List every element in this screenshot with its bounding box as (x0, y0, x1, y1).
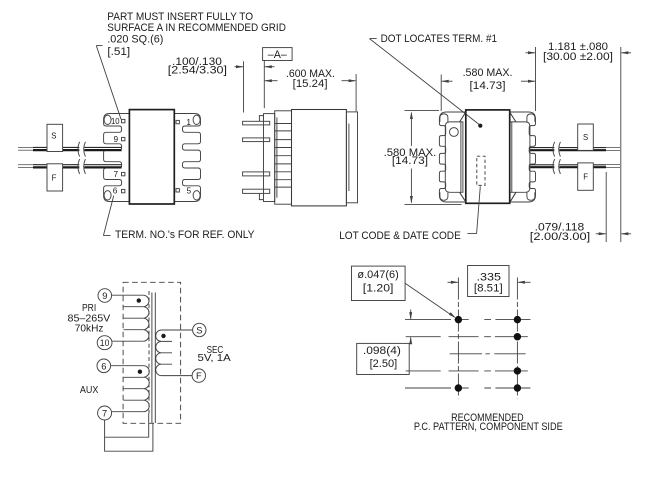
note: TERM. NO.'s FOR REF. ONLY with leader to pin 6 (103, 196, 113, 236)
svg-text:.580 MAX.: .580 MAX. (463, 67, 513, 79)
wire secondary S (twisted pair exits left) (18, 147, 122, 150)
svg-text:6: 6 (101, 361, 106, 371)
svg-text:[2.50]: [2.50] (370, 358, 398, 370)
dimension .580 MAX vertical (384, 110, 462, 204)
chamfer lines (460, 112, 516, 203)
F terminal block (578, 163, 594, 190)
dimension .600 MAX body width (264, 68, 356, 111)
dimension pad dia .047 (352, 266, 456, 318)
wire secondary F (18, 165, 122, 168)
terminal 7 (98, 406, 112, 420)
svg-text:[2.54/3.30]: [2.54/3.30] (168, 64, 227, 76)
core body (side) (292, 110, 347, 206)
bobbin outline right (scalloped pins 1,2,3,4,5) (174, 114, 200, 202)
svg-text:P.C. PATTERN, COMPONENT SIDE: P.C. PATTERN, COMPONENT SIDE (414, 421, 563, 433)
svg-text:.335: .335 (477, 271, 502, 283)
svg-text:F: F (52, 173, 57, 182)
svg-text:S: S (51, 132, 56, 141)
terminal 10 (97, 336, 112, 350)
dimension .580 MAX horizontal (441, 47, 535, 111)
bobbin outline left (scalloped pins 10,9,8,7,6) (104, 114, 130, 202)
wire secondary F (530, 165, 620, 168)
svg-text:70kHz: 70kHz (75, 323, 104, 334)
pins (side view, 4 visible) (243, 121, 270, 193)
note: DOT LOCATES TERM. #1 with leader (370, 33, 498, 124)
note: PART MUST INSERT FULLY TO SURFACE A (107, 11, 286, 58)
svg-text:.020 SQ.(6): .020 SQ.(6) (107, 33, 163, 45)
svg-text:9: 9 (102, 291, 107, 301)
svg-text:10: 10 (100, 338, 110, 348)
svg-text:[2.00/3.00]: [2.00/3.00] (530, 231, 590, 243)
svg-text:[14.73]: [14.73] (470, 80, 506, 92)
S terminal block (578, 124, 594, 150)
bobbin flange (264, 114, 275, 202)
dimension 1.181 +-.080 wire length (526, 41, 632, 242)
svg-text:.098(4): .098(4) (363, 345, 401, 357)
dimension .098 row pitch (357, 310, 413, 375)
S terminal block (47, 124, 63, 151)
svg-text:LOT CODE & DATE CODE: LOT CODE & DATE CODE (339, 230, 461, 242)
svg-text:1: 1 (186, 117, 191, 127)
svg-text:5V, 1A: 5V, 1A (198, 353, 231, 364)
transformer boundary (dashed) (123, 282, 181, 423)
wire break marks (553, 142, 561, 174)
svg-text:ø.047(6): ø.047(6) (357, 269, 398, 281)
svg-text:7: 7 (102, 409, 107, 419)
phase dot AUX (138, 370, 142, 374)
F terminal block (47, 164, 63, 191)
wire secondary S (exits right) (530, 148, 620, 151)
phase dot SEC (161, 334, 165, 338)
terminal 6 (97, 359, 111, 373)
wire break marks (78, 142, 86, 174)
bobbin flange left (bottom view) (445, 122, 463, 192)
svg-text:[1.20]: [1.20] (363, 282, 394, 294)
wire: shield to pin7 node (105, 414, 153, 452)
pin 1 hole (193, 115, 200, 124)
core lines (152, 293, 155, 424)
phase dot PRI (137, 298, 141, 302)
terminal S (193, 323, 206, 336)
dimension .335 column spacing (448, 266, 531, 297)
winding AUX (pins 6-7) (111, 366, 150, 412)
terminal F (192, 369, 205, 382)
svg-text:DOT LOCATES TERM. #1: DOT LOCATES TERM. #1 (381, 33, 497, 45)
svg-text:TERM. NO.'s FOR REF. ONLY: TERM. NO.'s FOR REF. ONLY (115, 229, 255, 241)
bobbin flange right (bottom view) (510, 122, 530, 192)
outline left (scalloped) (439, 112, 465, 202)
svg-text:F: F (583, 172, 588, 181)
svg-text:AUX: AUX (80, 385, 99, 396)
terminal 9 (98, 289, 112, 303)
dimension .079/.118 wire strip length (530, 172, 631, 243)
svg-text:SURFACE A IN RECOMMENDED GRID: SURFACE A IN RECOMMENDED GRID (107, 22, 286, 34)
pin pads (squares) and numbers (111, 116, 191, 196)
dot terminal 1 (478, 124, 482, 128)
core (central rectangle, top view) (129, 110, 174, 204)
svg-text:S: S (583, 133, 588, 142)
dimension .100/.130 pin standoff (168, 56, 275, 113)
winding PRI (pins 9-10) (112, 295, 149, 341)
svg-text:[30.00 ±2.00]: [30.00 ±2.00] (543, 51, 613, 63)
svg-text:7: 7 (113, 169, 118, 179)
outline right (scalloped) (510, 112, 536, 202)
svg-text:5: 5 (186, 185, 191, 195)
flange mounting steps (259, 116, 263, 200)
winding SEC (S-F) (156, 330, 193, 376)
svg-text:6: 6 (113, 186, 118, 196)
svg-text:[8.51]: [8.51] (474, 283, 503, 295)
datum A flag (263, 48, 293, 61)
pin 5 hole (193, 191, 200, 200)
column centerlines (457, 278, 459, 399)
pin 10 hole (104, 115, 111, 124)
shield (dashed line) (148, 291, 150, 414)
pin 6 hole (104, 191, 111, 200)
lot/date code area (dashed) (477, 156, 485, 185)
winding stack strip (275, 111, 292, 204)
svg-text:9: 9 (113, 134, 118, 144)
svg-text:–A–: –A– (268, 49, 287, 61)
svg-text:10: 10 (111, 116, 120, 126)
svg-text:F: F (196, 371, 202, 381)
pin 1 hole (450, 128, 459, 137)
end cap / tape (346, 112, 357, 203)
corner pin tabs (440, 114, 535, 200)
leader to pin 10 pad (96, 46, 121, 120)
note: LOT CODE & DATE CODE with leader (339, 186, 480, 242)
svg-text:[15.24]: [15.24] (293, 78, 328, 90)
pads (6) (455, 316, 521, 392)
svg-text:S: S (196, 326, 202, 336)
core (central rectangle, bottom view) (466, 110, 510, 203)
row centerlines (405, 278, 531, 399)
svg-text:[.51]: [.51] (107, 46, 130, 58)
svg-text:[14.73]: [14.73] (392, 155, 428, 167)
